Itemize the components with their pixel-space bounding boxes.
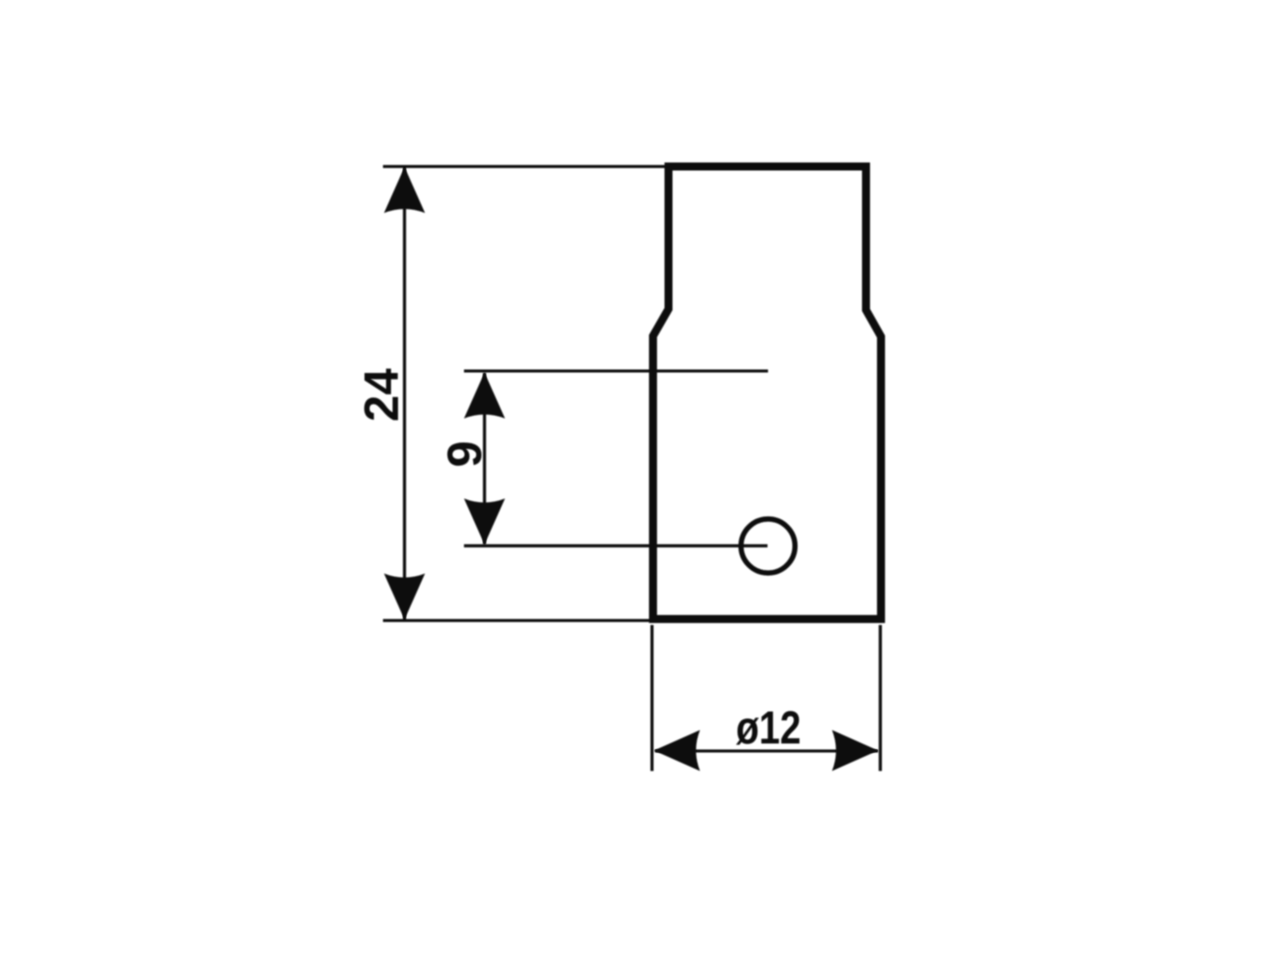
arrow d12 right: [832, 730, 878, 771]
arrow 9 up: [464, 373, 505, 419]
arrow d12 left: [654, 730, 700, 771]
extension line 9 top: [464, 369, 768, 372]
extension line d12 right: [879, 625, 882, 771]
part outline: [653, 167, 881, 620]
svg-text:24: 24: [356, 368, 409, 422]
svg-text:9: 9: [439, 441, 492, 468]
arrow 24 up: [384, 167, 425, 213]
svg-text:ø12: ø12: [736, 702, 801, 754]
hole circle: [741, 519, 795, 573]
extension line d12 left: [650, 625, 653, 771]
arrow 24 down: [384, 574, 425, 620]
dimension line 9: [483, 373, 486, 544]
extension line 9 bottom: [464, 544, 768, 547]
dimension line 24: [403, 168, 406, 619]
extension line 24 top: [383, 165, 668, 168]
dimension line d12: [655, 749, 878, 752]
arrow 9 down: [464, 499, 505, 545]
extension line 24 bottom: [383, 619, 651, 622]
